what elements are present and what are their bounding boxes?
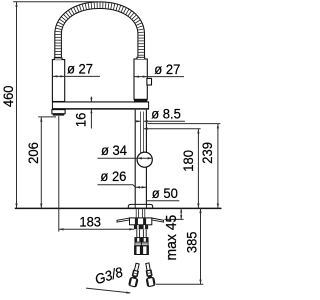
svg-text:206: 206 (25, 142, 41, 164)
svg-text:ø 27: ø 27 (154, 61, 180, 77)
spout arm (52, 102, 148, 110)
dark band under right tube (134, 99, 147, 102)
dimension 385 hose length (200, 208, 202, 284)
inner spray hose (140, 112, 142, 154)
dimension lines (13, 2, 220, 294)
hose end flare right (137, 57, 145, 59)
horseshoe washer left wing (117, 218, 130, 222)
hose end flare left (54, 58, 62, 60)
handle knob (147, 78, 152, 85)
leader line G3/8 thread callout (86, 288, 130, 293)
dimension labels (1, 61, 216, 287)
svg-text:180: 180 (181, 150, 197, 172)
dimension 16 arm thickness (90, 97, 92, 102)
dimension diameter 34 ball (98, 157, 153, 159)
svg-text:385: 385 (184, 231, 200, 253)
svg-text:183: 183 (79, 214, 101, 230)
clamp block (130, 218, 152, 225)
left spout tube (52, 60, 64, 102)
svg-text:16: 16 (73, 113, 89, 127)
worktop line (15, 207, 222, 209)
spring hose arch (55, 2, 145, 59)
dimension max 45 clamping range (180, 208, 182, 219)
mounting nut (134, 225, 148, 229)
dimension diameter 50 flange (146, 200, 179, 202)
spout nozzle (52, 110, 65, 114)
horseshoe washer right wing (152, 218, 164, 222)
hose fitting right (142, 229, 144, 237)
dimension diameter 8.5 inner hose (144, 120, 185, 122)
right upper tube (134, 59, 147, 99)
base flange (128, 204, 152, 208)
dimension diameter 27 left spout (53, 75, 100, 77)
dimension 183 spout reach (58, 116, 60, 232)
dimension 460 overall height (16, 2, 18, 208)
dimension diameter 26 body (98, 184, 134, 186)
threaded shank lines (135, 209, 137, 218)
svg-text:ø 27: ø 27 (67, 61, 93, 77)
main body tube (135, 110, 146, 205)
svg-text:460: 460 (1, 85, 17, 107)
dimension 239 height (217, 124, 219, 209)
supply hose left (129, 263, 142, 287)
svg-text:ø 26: ø 26 (100, 169, 126, 185)
dimension 180 height (197, 129, 199, 209)
hose fitting left (136, 229, 138, 237)
faucet technical drawing (0, 0, 225, 300)
ball joint (137, 152, 152, 167)
svg-text:ø 8.5: ø 8.5 (151, 106, 181, 122)
dimension diameter 27 body top (134, 76, 184, 78)
supply hose right (144, 263, 156, 287)
svg-text:max 45: max 45 (164, 215, 181, 261)
svg-text:ø 34: ø 34 (101, 143, 127, 159)
svg-text:ø 50: ø 50 (152, 186, 178, 202)
svg-text:239: 239 (200, 142, 216, 164)
dimension 206 spout clearance (40, 117, 42, 208)
